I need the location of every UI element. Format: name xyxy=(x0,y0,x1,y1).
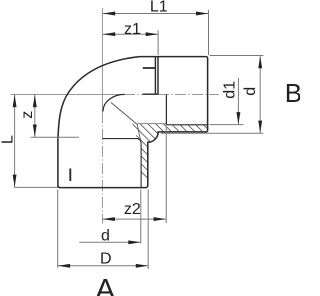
svg-text:d: d xyxy=(101,227,110,244)
faint bore edge line above corner hatch xyxy=(137,123,166,125)
dim L1 xyxy=(103,10,209,55)
dim D (bottom) xyxy=(58,190,149,270)
spigot insertion depth double line xyxy=(154,57,156,95)
spigot internal shoulder xyxy=(165,95,167,125)
svg-text:z: z xyxy=(19,111,36,119)
hatch section fill xyxy=(58,88,287,200)
svg-text:L1: L1 xyxy=(150,0,168,16)
dim z (left) xyxy=(31,95,80,138)
socket internal shoulder (bottom leg) xyxy=(103,139,141,188)
svg-text:A: A xyxy=(95,273,115,296)
dim z2 (bottom) xyxy=(103,126,167,223)
svg-text:z2: z2 xyxy=(124,201,141,218)
spigot bore line (section, lower half) xyxy=(166,124,207,126)
dim d (bottom, single arrow) xyxy=(79,190,141,244)
section boundary 45deg line xyxy=(111,103,137,125)
svg-text:z1: z1 xyxy=(124,21,141,38)
svg-text:d: d xyxy=(242,87,259,96)
inner bore arc at bend xyxy=(103,94,125,111)
wire vertical centerline (leg axis, also L1/z1 extension) xyxy=(101,8,103,112)
wire horizontal centerline (spigot axis, also z/L extension) xyxy=(11,93,124,95)
cut face cap line at axis xyxy=(143,93,159,95)
svg-text:D: D xyxy=(100,250,112,267)
dim d1 (right, arrow down to bore line) xyxy=(209,78,243,125)
dim z1 xyxy=(103,30,158,55)
svg-text:L: L xyxy=(0,135,16,144)
dim L (left) xyxy=(14,95,57,188)
svg-text:d1: d1 xyxy=(222,81,239,99)
bore top line (section, upper half) xyxy=(143,67,156,69)
elbow body outer outline xyxy=(58,57,208,188)
socket depth tick (left leg) xyxy=(69,169,71,182)
dim d (right) xyxy=(161,56,263,134)
svg-text:B: B xyxy=(285,78,300,108)
section boundary steep line xyxy=(137,125,140,141)
